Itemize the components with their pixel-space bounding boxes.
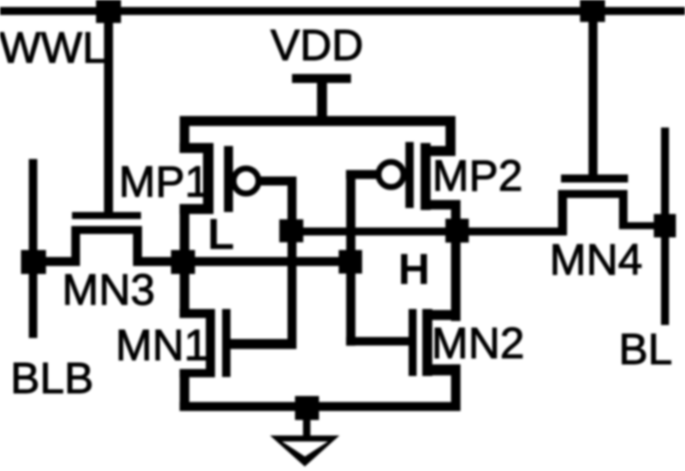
svg-text:MN3: MN3	[62, 266, 155, 315]
svg-text:L: L	[208, 210, 235, 259]
svg-text:MN1: MN1	[116, 321, 209, 370]
svg-text:MN4: MN4	[550, 236, 643, 285]
svg-text:BL: BL	[619, 325, 673, 374]
svg-text:WWL: WWL	[0, 24, 107, 73]
svg-text:BLB: BLB	[10, 354, 93, 403]
svg-text:MN2: MN2	[432, 319, 525, 368]
svg-text:VDD: VDD	[271, 21, 364, 70]
svg-text:MP2: MP2	[432, 152, 522, 201]
svg-text:MP1: MP1	[119, 158, 209, 207]
svg-text:H: H	[398, 245, 430, 294]
